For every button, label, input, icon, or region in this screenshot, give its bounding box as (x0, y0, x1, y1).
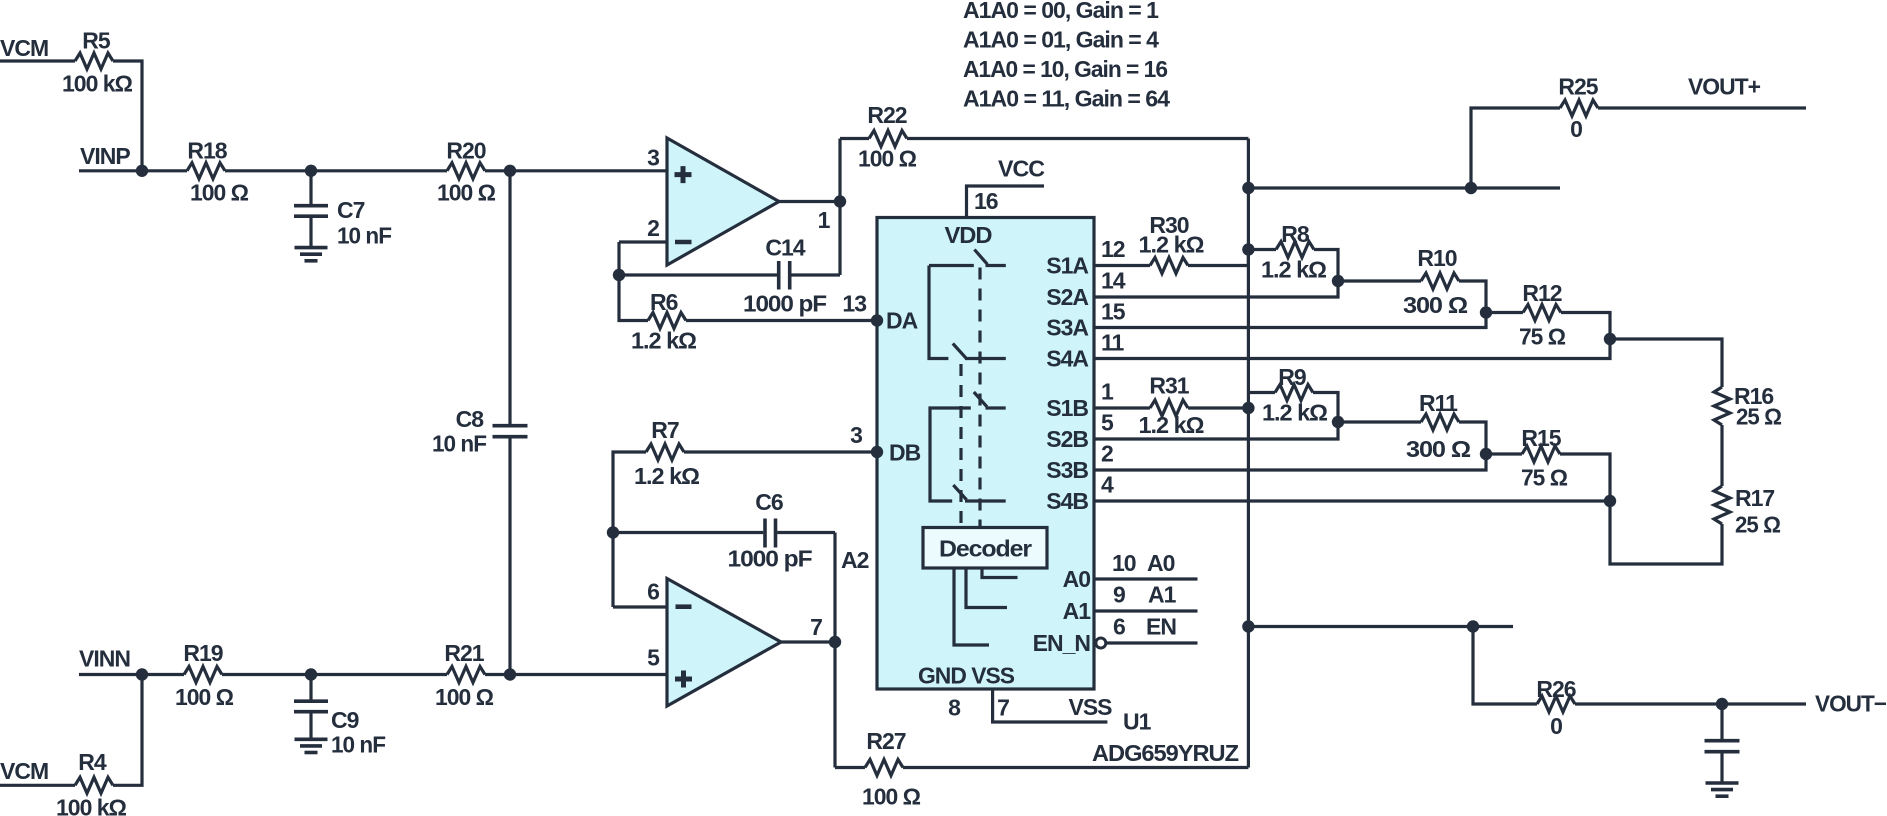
minus sign (A2 pin 6) (676, 604, 692, 609)
wire R6 to DA pin (686, 319, 877, 322)
capacitor C14 (619, 273, 777, 276)
svg-text:A0: A0 (1063, 566, 1091, 592)
svg-text:EN_N: EN_N (1033, 630, 1091, 656)
svg-text:2: 2 (647, 215, 659, 241)
wire R16 to R17 (1720, 425, 1723, 486)
capacitor C8 (508, 171, 511, 424)
svg-text:100 Ω: 100 Ω (175, 684, 234, 710)
svg-text:R7: R7 (651, 417, 679, 443)
node trunk/VOUT- branch (1242, 620, 1254, 632)
wire C8 node to op-amp pin 3 (510, 169, 667, 172)
node output cap junction (1716, 698, 1728, 710)
wire VINP to R18 (142, 169, 187, 172)
wire S4B line (1094, 499, 1610, 502)
resistor R9 (1248, 391, 1275, 394)
svg-text:C9: C9 (331, 707, 359, 733)
decoder box (923, 528, 1047, 569)
svg-text:5: 5 (647, 645, 660, 671)
svg-text:7: 7 (997, 695, 1009, 721)
svg-text:1000 pF: 1000 pF (743, 291, 827, 317)
svg-text:VOUT+: VOUT+ (1688, 74, 1761, 100)
wire R31 to trunk node (1188, 406, 1248, 409)
wire switch S4A right (965, 357, 1006, 360)
wire EN stub (1106, 641, 1198, 644)
wire C8 node to op-amp pin 5 (510, 673, 667, 676)
capacitor C7 (309, 171, 312, 204)
node VINP junction (136, 165, 148, 177)
svg-text:14: 14 (1101, 268, 1126, 294)
svg-text:S1A: S1A (1046, 252, 1088, 278)
wire R25 to VOUT+ (1598, 106, 1806, 109)
svg-text:S4A: S4A (1046, 345, 1088, 371)
svg-text:VOUT−: VOUT− (1815, 691, 1887, 717)
svg-text:S4B: S4B (1046, 488, 1088, 514)
svg-text:1.2 kΩ: 1.2 kΩ (1262, 400, 1328, 426)
wire R7 to DB pin (684, 450, 877, 453)
wire bracket DA common (929, 266, 948, 359)
wire R26 riser (1473, 627, 1537, 705)
svg-text:S2A: S2A (1046, 284, 1088, 310)
plus sign (A2 pin 5) (675, 671, 692, 688)
svg-text:300 Ω: 300 Ω (1403, 292, 1468, 318)
svg-text:9: 9 (1113, 582, 1125, 608)
resistor R4 (75, 777, 113, 793)
svg-text:100 Ω: 100 Ω (858, 146, 917, 172)
switch blade S1B (974, 392, 987, 407)
svg-text:10 nF: 10 nF (331, 732, 386, 758)
svg-text:100 Ω: 100 Ω (862, 784, 921, 810)
wire A2 pin 6 (613, 605, 667, 608)
svg-text:25 Ω: 25 Ω (1736, 404, 1782, 430)
svg-text:10: 10 (1112, 550, 1136, 576)
svg-text:12: 12 (1101, 236, 1125, 262)
resistor R20 (447, 163, 485, 179)
node C8 top junction (504, 165, 516, 177)
svg-text:6: 6 (1113, 614, 1125, 640)
svg-text:13: 13 (842, 291, 866, 317)
node R9/R11 junction (1332, 416, 1344, 428)
node R8/R10 junction (1332, 275, 1344, 287)
svg-text:300 Ω: 300 Ω (1406, 436, 1471, 462)
pin 16 VDD stub (967, 186, 1045, 218)
pin 7 VSS stub (993, 689, 1108, 722)
svg-text:1.2 kΩ: 1.2 kΩ (631, 328, 697, 354)
svg-text:VINP: VINP (80, 143, 130, 169)
svg-text:DA: DA (886, 307, 918, 333)
wire A0 stub (1094, 577, 1198, 580)
svg-text:100 Ω: 100 Ω (435, 684, 494, 710)
svg-text:A1A0 = 10, Gain = 16: A1A0 = 10, Gain = 16 (963, 56, 1167, 82)
decoder leg to A0 (982, 568, 1018, 578)
wire R5 to VINP node (113, 61, 142, 171)
wire A2 output down (833, 642, 836, 768)
svg-text:A1: A1 (1148, 582, 1177, 608)
resistor R30 (1150, 258, 1188, 274)
node trunk/R31 branch (1242, 402, 1254, 414)
wire A1 output vertical (838, 139, 841, 276)
svg-text:R9: R9 (1278, 364, 1306, 390)
wire C9 node to R21 (311, 673, 447, 676)
switch blade S4A (953, 344, 966, 359)
svg-text:0: 0 (1570, 116, 1582, 142)
wire R18 to C7 node (225, 169, 311, 172)
svg-text:7: 7 (810, 614, 822, 640)
svg-text:DB: DB (889, 439, 921, 465)
svg-text:R19: R19 (183, 640, 222, 666)
wire R17 return to S4B node (1610, 501, 1722, 564)
wire pin2 down to feedback node (617, 242, 620, 275)
resistor R19 (184, 667, 222, 683)
svg-text:15: 15 (1101, 299, 1126, 325)
svg-text:ADG659YRUZ: ADG659YRUZ (1092, 740, 1239, 766)
svg-text:VDD: VDD (945, 222, 992, 248)
node R10/R12 junction (1480, 306, 1492, 318)
svg-text:S1B: S1B (1046, 395, 1088, 421)
svg-text:4: 4 (1101, 472, 1114, 498)
svg-text:R11: R11 (1419, 390, 1458, 416)
svg-text:R8: R8 (1281, 221, 1310, 247)
svg-text:A2: A2 (841, 547, 869, 573)
svg-text:VCC: VCC (998, 156, 1044, 182)
wire feedback node to R6 (619, 275, 648, 321)
svg-text:10 nF: 10 nF (337, 223, 392, 249)
resistor R11 (1338, 420, 1421, 423)
node R26 branch junction (1467, 620, 1479, 632)
wire R25 riser (1471, 108, 1560, 188)
wire switch S1A right (986, 264, 1006, 267)
svg-text:R10: R10 (1417, 245, 1456, 271)
resistor R22 (869, 131, 907, 147)
wire R19 to C9 node (222, 673, 311, 676)
svg-text:A0: A0 (1147, 550, 1175, 576)
node A2 output junction (829, 636, 841, 648)
wire R21 to C8 node (485, 673, 510, 676)
svg-text:2: 2 (1101, 441, 1113, 467)
wire switch S4B right (965, 499, 1006, 502)
resistor R17 (1714, 486, 1730, 524)
wire S1A to R30 (1094, 264, 1150, 267)
resistor R16 (1714, 387, 1730, 425)
ground (C-out) (1706, 781, 1739, 785)
svg-text:A1A0 = 11, Gain = 64: A1A0 = 11, Gain = 64 (963, 86, 1170, 112)
svg-text:GND VSS: GND VSS (918, 663, 1015, 689)
wire VINN to R19 (142, 673, 184, 676)
node A1 output junction (834, 195, 846, 207)
resistor R26 (1537, 696, 1575, 712)
svg-text:100 Ω: 100 Ω (437, 180, 496, 206)
resistor R7 (646, 444, 684, 460)
dashed control line 1 (978, 268, 981, 528)
wire switch S1A left (929, 264, 974, 267)
node DB pin junction (871, 446, 883, 458)
svg-text:A1A0 = 00, Gain = 1: A1A0 = 00, Gain = 1 (963, 0, 1159, 23)
svg-text:25 Ω: 25 Ω (1735, 512, 1781, 538)
node R25 branch junction (1465, 182, 1477, 194)
wire S1B to R31 (1094, 406, 1150, 409)
svg-text:100 kΩ: 100 kΩ (56, 795, 127, 816)
svg-text:R5: R5 (82, 28, 111, 54)
svg-text:1.2 kΩ: 1.2 kΩ (634, 463, 700, 489)
resistor R12 (1486, 311, 1523, 314)
op-amp A1 (667, 138, 779, 265)
svg-text:R31: R31 (1149, 373, 1189, 399)
svg-text:1: 1 (1101, 379, 1114, 405)
node C7 junction (305, 165, 317, 177)
wire S2A to R8 node (1094, 281, 1338, 297)
wire A1 stub (1094, 609, 1198, 612)
capacitor C9 (309, 675, 312, 700)
svg-text:8: 8 (948, 695, 961, 721)
svg-text:C14: C14 (765, 235, 805, 261)
svg-text:VINN: VINN (79, 646, 130, 672)
svg-text:C8: C8 (456, 406, 485, 432)
svg-text:R20: R20 (446, 138, 485, 164)
wire switch S1B right (986, 406, 1006, 409)
svg-text:75 Ω: 75 Ω (1519, 324, 1566, 350)
wire S3B to R11 node (1094, 454, 1486, 470)
svg-text:1: 1 (818, 207, 831, 233)
node A1 feedback junction (613, 269, 625, 281)
svg-text:100 kΩ: 100 kΩ (62, 71, 133, 97)
svg-text:Decoder: Decoder (939, 536, 1032, 562)
wire A1 output to R22 (840, 137, 869, 140)
svg-text:R6: R6 (650, 289, 678, 315)
wire A1 pin 2 (619, 240, 667, 243)
svg-text:EN: EN (1146, 614, 1176, 640)
svg-text:VSS: VSS (1069, 694, 1113, 720)
wire VCM to R5 (0, 59, 75, 62)
node C9 junction (305, 668, 317, 680)
svg-text:VCM: VCM (0, 758, 48, 784)
wire feedback node to R7 (613, 452, 646, 533)
decoder leg to A1 (966, 568, 1007, 608)
resistor R10 (1338, 279, 1421, 282)
svg-text:R26: R26 (1536, 676, 1575, 702)
svg-text:5: 5 (1101, 410, 1114, 436)
svg-text:U1: U1 (1123, 709, 1152, 735)
wire R26 to VOUT- (1575, 702, 1806, 705)
decoder leg to EN (954, 568, 989, 645)
svg-text:1.2 kΩ: 1.2 kΩ (1261, 257, 1327, 283)
wire S3A to R10 node (1094, 313, 1486, 328)
wire VINN stub (79, 673, 142, 676)
svg-text:R25: R25 (1558, 74, 1598, 100)
svg-text:VCM: VCM (0, 35, 48, 61)
node VINN junction (136, 668, 148, 680)
wire VCM to R4 (0, 784, 75, 787)
wire A1 output to node (779, 200, 840, 203)
wire trunk vertical (1247, 139, 1250, 768)
op-amp A2 (667, 579, 781, 707)
resistor R31 (1150, 400, 1188, 416)
svg-text:3: 3 (850, 422, 862, 448)
node R15/S4B junction (1604, 495, 1616, 507)
svg-text:1.2 kΩ: 1.2 kΩ (1139, 412, 1205, 438)
ground (C7) (295, 246, 328, 250)
plus sign (A1 pin 3) (675, 166, 692, 183)
wire A2 output to node (781, 640, 835, 643)
svg-text:16: 16 (974, 188, 998, 214)
svg-text:A1: A1 (1063, 598, 1092, 624)
wire pin6 up to feedback node (611, 533, 614, 608)
svg-text:R27: R27 (866, 728, 905, 754)
svg-text:R4: R4 (78, 749, 107, 775)
capacitor C-out (1720, 704, 1723, 739)
svg-text:R22: R22 (867, 102, 906, 128)
wire VOUT+ feed (1248, 186, 1560, 189)
svg-text:R18: R18 (187, 138, 227, 164)
capacitor C6 (613, 531, 763, 534)
wire bracket DB common (930, 408, 971, 501)
node R12/R16 junction (1604, 333, 1616, 345)
svg-text:6: 6 (647, 579, 659, 605)
resistor R27 (835, 766, 865, 769)
switch blade S1A (974, 250, 987, 265)
inverter bubble EN_N (1096, 638, 1106, 648)
mux U1 ADG659 body (877, 218, 1094, 690)
svg-text:10 nF: 10 nF (432, 431, 487, 457)
resistor R8 (1248, 248, 1276, 251)
svg-text:R12: R12 (1522, 280, 1561, 306)
svg-text:S2B: S2B (1046, 426, 1088, 452)
svg-text:A1A0 = 01, Gain = 4: A1A0 = 01, Gain = 4 (963, 27, 1159, 53)
node A2 feedback junction (607, 526, 619, 538)
wire R4 to VINN node (113, 675, 142, 786)
node R11/R15 junction (1480, 448, 1492, 460)
wire VOUT- feed (1248, 625, 1513, 628)
resistor R18 (187, 163, 225, 179)
node DA pin junction (871, 314, 883, 326)
wire C6 to A2 output (833, 533, 836, 643)
svg-text:1.2 kΩ: 1.2 kΩ (1139, 232, 1205, 258)
svg-text:0: 0 (1550, 713, 1562, 739)
resistor R6 (648, 313, 686, 329)
wire S2B to R9 node (1094, 422, 1338, 439)
wire R20 to C8 node (485, 169, 510, 172)
node trunk/VOUT+ branch (1242, 182, 1254, 194)
svg-text:S3A: S3A (1046, 314, 1088, 340)
svg-text:C6: C6 (755, 489, 783, 515)
svg-text:R15: R15 (1521, 425, 1561, 451)
switch blade S4B (953, 485, 966, 500)
svg-text:R17: R17 (1735, 485, 1774, 511)
svg-text:C7: C7 (337, 197, 365, 223)
wire R30 to trunk node (1188, 250, 1248, 266)
wire R22 to trunk (907, 137, 1248, 140)
wire C7 node to R20 (311, 169, 447, 172)
ground (C9) (295, 737, 328, 741)
wire S4A to R12 node (1094, 339, 1610, 359)
wire VINP stub (79, 169, 142, 172)
resistor R15 (1486, 452, 1522, 455)
svg-text:S3B: S3B (1046, 457, 1088, 483)
resistor R25 (1560, 100, 1598, 116)
minus sign (A1 pin 2) (675, 240, 692, 245)
dashed control line 2 (959, 364, 962, 527)
svg-text:75 Ω: 75 Ω (1521, 465, 1568, 491)
svg-text:100 Ω: 100 Ω (190, 180, 249, 206)
node trunk/R8 branch (1242, 243, 1254, 255)
node C8 bottom junction (504, 668, 516, 680)
resistor R5 (75, 53, 113, 69)
resistor R21 (447, 667, 485, 683)
svg-text:3: 3 (647, 145, 659, 171)
svg-text:11: 11 (1101, 330, 1125, 356)
svg-text:1000 pF: 1000 pF (728, 546, 813, 572)
wire R12 node to R16 (1610, 339, 1722, 387)
svg-text:R21: R21 (444, 640, 484, 666)
